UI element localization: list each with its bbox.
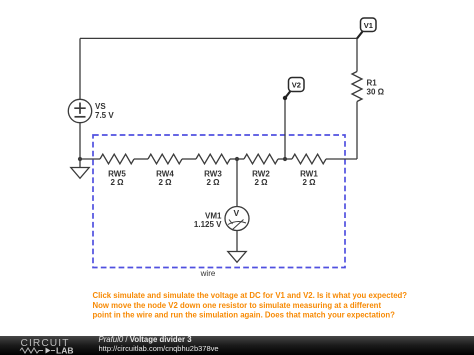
wire chain right segment bbox=[326, 158, 357, 160]
wire VM1 branch bbox=[236, 159, 238, 207]
resistor R1 bbox=[352, 72, 385, 102]
svg-text:Now move the node V2 down one: Now move the node V2 down one resistor t… bbox=[93, 301, 382, 310]
wire top horizontal bbox=[80, 37, 357, 39]
dashed net highlight box "wire" bbox=[93, 135, 345, 278]
resistor RW4 bbox=[148, 154, 182, 187]
svg-text:2 Ω: 2 Ω bbox=[254, 178, 268, 187]
svg-text:V: V bbox=[233, 208, 239, 218]
wire bbox=[134, 158, 148, 160]
svg-text:2 Ω: 2 Ω bbox=[302, 178, 316, 187]
wire bbox=[278, 158, 292, 160]
voltmeter VM1 bbox=[194, 207, 249, 231]
wire below VM1 bbox=[236, 231, 238, 252]
wire R1 lower bbox=[356, 102, 358, 160]
ground under VM1 bbox=[228, 252, 246, 263]
svg-text:V1: V1 bbox=[364, 21, 373, 30]
svg-text:7.5 V: 7.5 V bbox=[95, 111, 114, 120]
svg-text:VS: VS bbox=[95, 102, 106, 111]
wire bbox=[230, 158, 244, 160]
instruction text bbox=[93, 291, 408, 320]
footer text bbox=[99, 335, 219, 353]
wire R1 upper bbox=[356, 38, 358, 71]
ground under VS bbox=[71, 159, 89, 178]
svg-text:1.125 V: 1.125 V bbox=[194, 220, 222, 229]
svg-text:http://circuitlab.com/cnqbhu2b: http://circuitlab.com/cnqbhu2b378ve bbox=[99, 344, 219, 353]
CircuitLab logo bbox=[20, 338, 73, 355]
node flag V2 bbox=[283, 78, 304, 101]
svg-text:V2: V2 bbox=[292, 81, 301, 90]
node junction to V2 bbox=[283, 157, 287, 161]
svg-text:2 Ω: 2 Ω bbox=[158, 178, 172, 187]
node junction to VM1 bbox=[235, 157, 239, 161]
svg-text:wire: wire bbox=[200, 269, 216, 278]
wire bbox=[182, 158, 196, 160]
svg-text:30 Ω: 30 Ω bbox=[367, 88, 385, 97]
voltage source VS bbox=[68, 99, 114, 122]
svg-text:2 Ω: 2 Ω bbox=[206, 178, 220, 187]
svg-text:R1: R1 bbox=[367, 79, 378, 88]
wire left vertical lower bbox=[79, 123, 81, 159]
resistor RW5 bbox=[100, 154, 134, 187]
node flag V1 bbox=[357, 18, 376, 39]
svg-text:Click simulate and simulate th: Click simulate and simulate the voltage … bbox=[93, 291, 408, 300]
resistor RW1 bbox=[292, 154, 326, 187]
resistor RW2 bbox=[244, 154, 278, 187]
wire chain segment bbox=[80, 158, 100, 160]
svg-text:2 Ω: 2 Ω bbox=[110, 178, 124, 187]
node junction at VS/ground bbox=[78, 157, 82, 161]
resistor RW3 bbox=[196, 154, 230, 187]
wire left vertical upper bbox=[79, 38, 81, 99]
wire V2 branch bbox=[284, 98, 286, 159]
svg-text:point in the wire and run the: point in the wire and run the simulation… bbox=[93, 311, 396, 320]
svg-text:Praful0 / Voltage divider 3: Praful0 / Voltage divider 3 bbox=[99, 335, 193, 344]
svg-text:LAB: LAB bbox=[56, 346, 73, 355]
